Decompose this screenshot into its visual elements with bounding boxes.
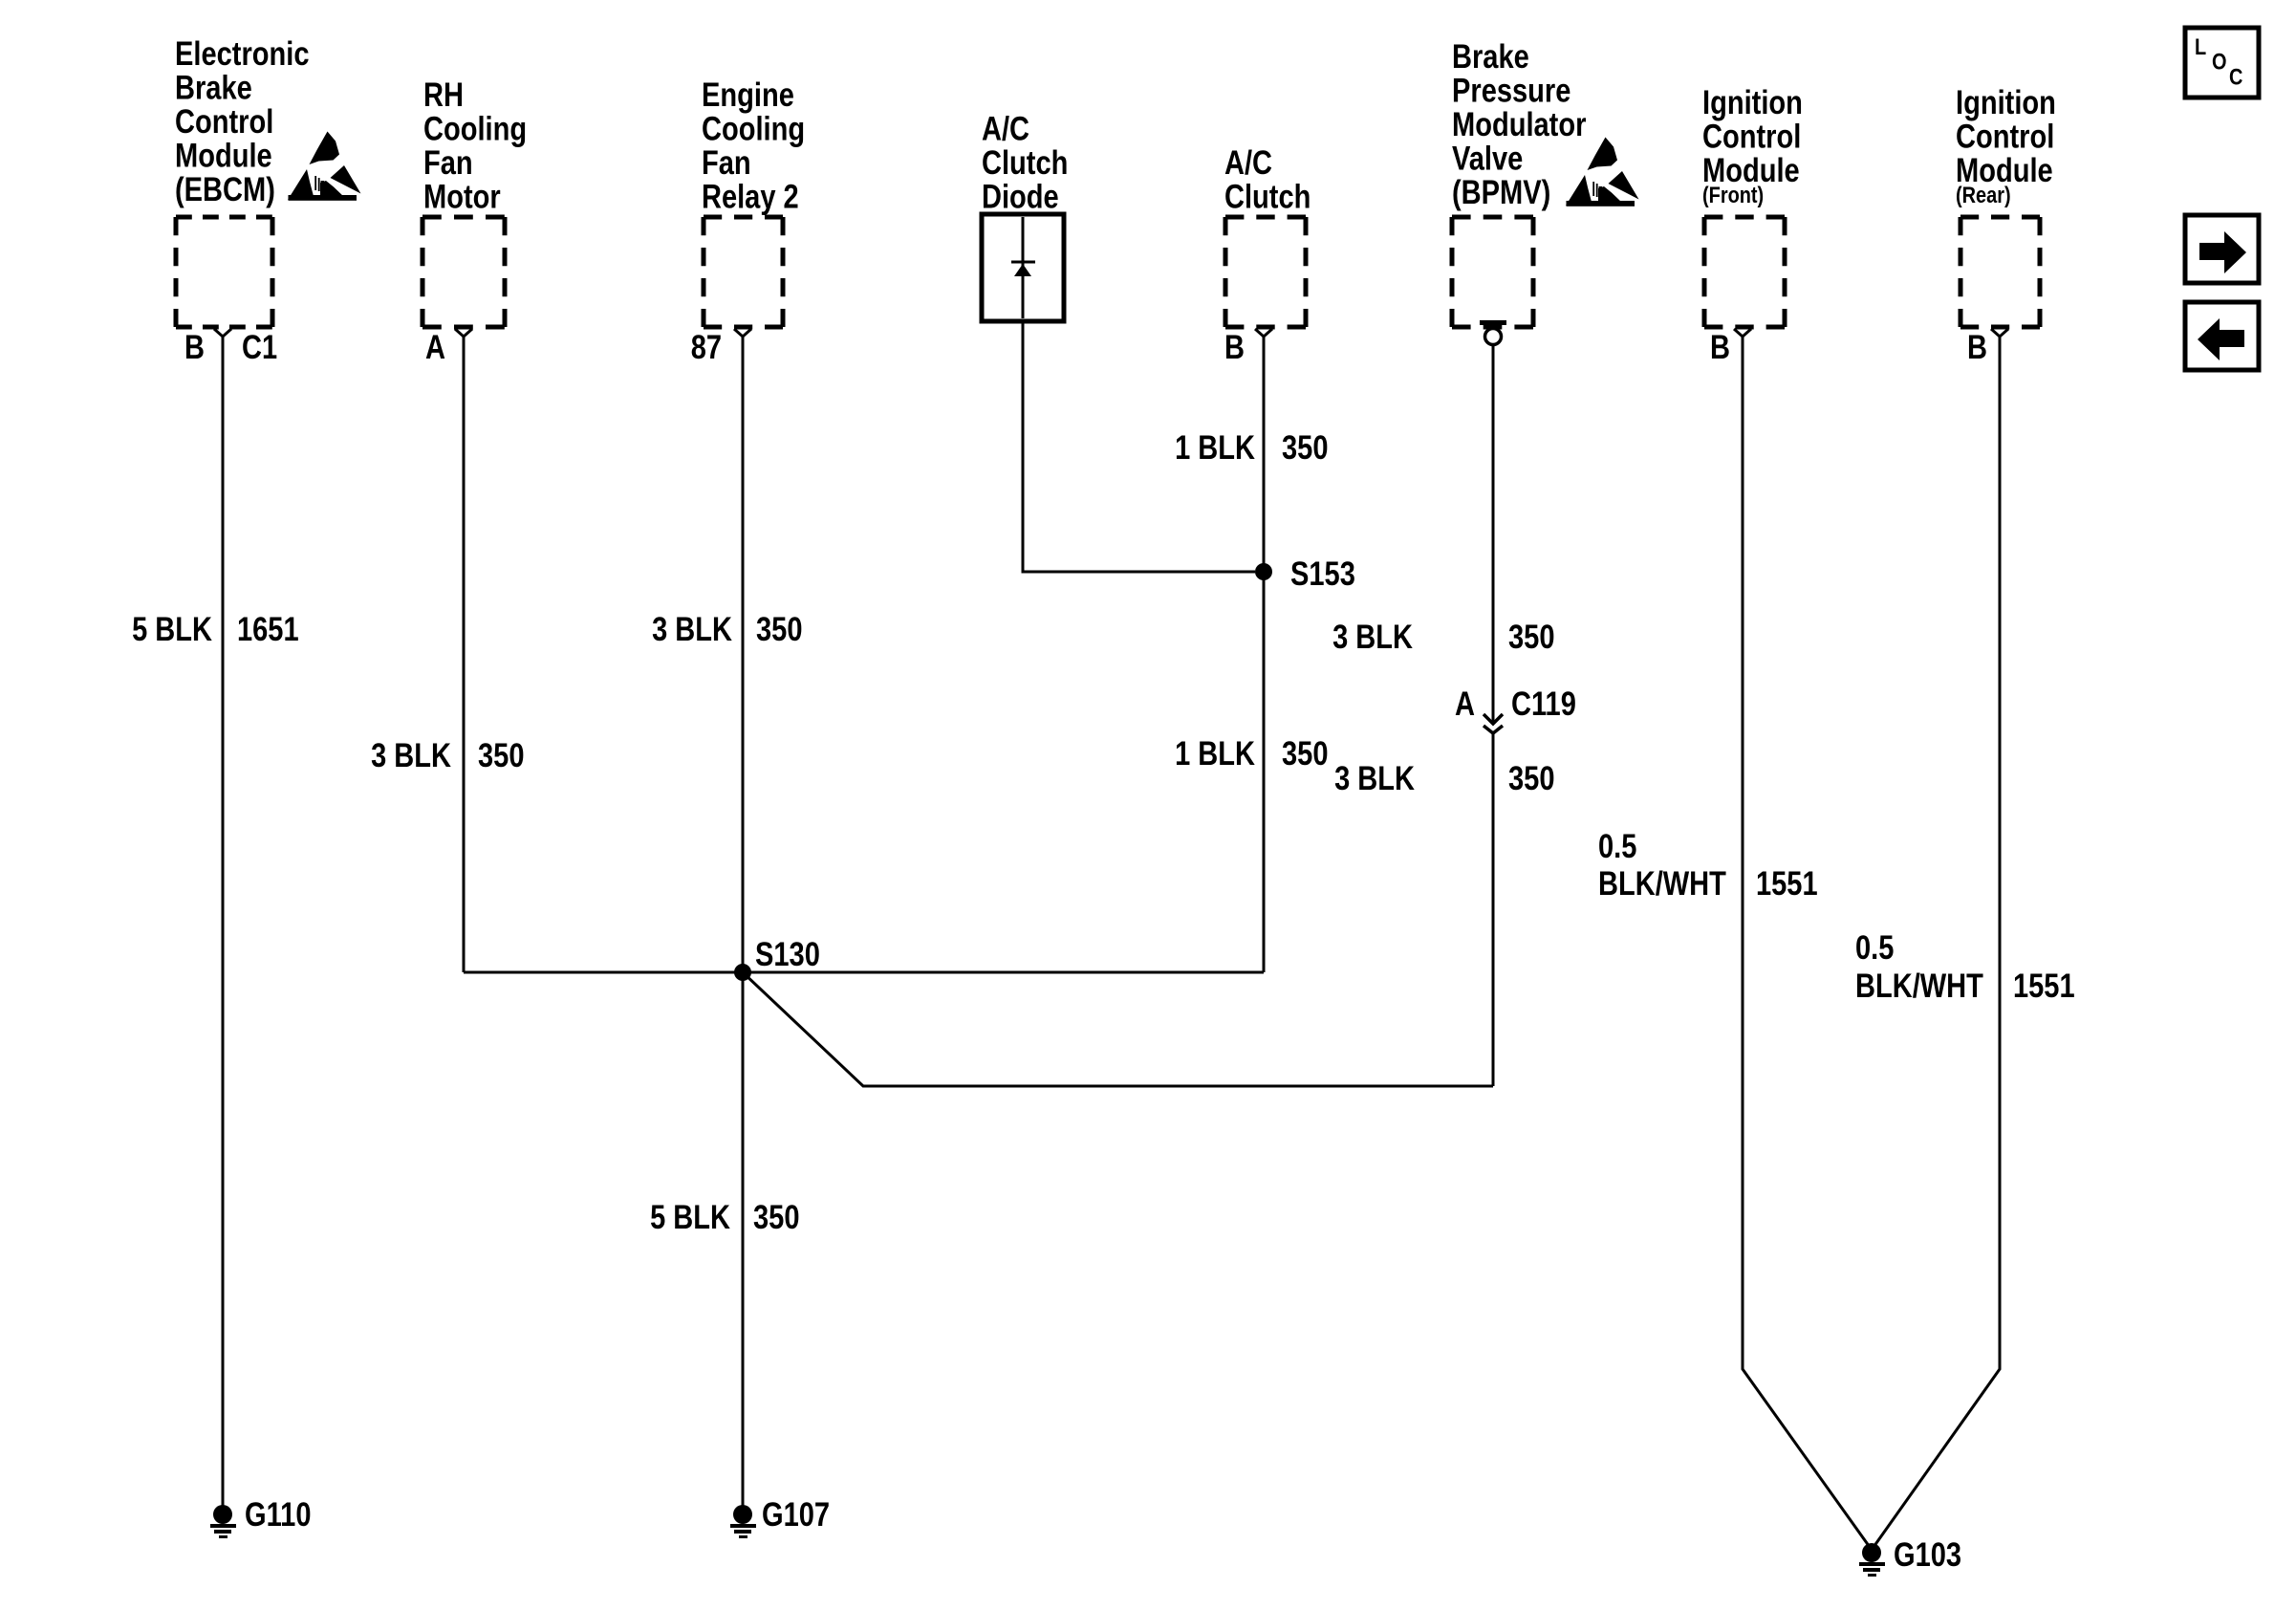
right arrow icon (2185, 215, 2259, 283)
svg-text:L: L (2195, 34, 2206, 60)
wire RH fan motor to S130, 3 BLK 350 (371, 337, 524, 972)
LOC legend icon (2185, 28, 2259, 98)
splice S130 with horizontal bus wire (464, 936, 1264, 981)
svg-text:Clutch: Clutch (982, 144, 1068, 182)
svg-text:Ignition: Ignition (1956, 84, 2056, 121)
svg-text:1651: 1651 (237, 611, 299, 648)
svg-text:1551: 1551 (1756, 865, 1818, 903)
svg-text:Motor: Motor (423, 179, 501, 216)
pin B of ICM front (1710, 329, 1751, 366)
left arrow icon (2185, 302, 2259, 370)
svg-text:C: C (2229, 65, 2242, 91)
svg-text:B: B (184, 329, 205, 366)
module Engine Cooling Fan Relay 2 (702, 76, 805, 327)
wire EBCM B to G110, 5 BLK 1651 (132, 337, 299, 1509)
svg-text:350: 350 (1282, 429, 1329, 467)
svg-text:(EBCM): (EBCM) (175, 171, 275, 208)
svg-text:3 BLK: 3 BLK (652, 611, 732, 648)
pin B of ICM rear (1967, 329, 2008, 366)
svg-text:350: 350 (756, 611, 803, 648)
svg-text:Clutch: Clutch (1224, 179, 1310, 216)
pin 87 of relay 2 (691, 329, 751, 366)
svg-text:5 BLK: 5 BLK (132, 611, 212, 648)
svg-text:BLK/WHT: BLK/WHT (1855, 968, 1983, 1005)
svg-text:G110: G110 (245, 1496, 312, 1534)
module Ignition Control Module (Front) (1702, 84, 1803, 327)
svg-text:Ignition: Ignition (1702, 84, 1803, 121)
svg-text:3 BLK: 3 BLK (1332, 619, 1413, 656)
module Ignition Control Module (Rear) (1956, 84, 2056, 327)
module A/C Clutch (1224, 144, 1310, 327)
svg-text:G107: G107 (762, 1496, 830, 1534)
svg-text:0.5: 0.5 (1855, 929, 1894, 967)
svg-text:1 BLK: 1 BLK (1175, 735, 1255, 772)
wire relay 87 through S130 to G107, 3 BLK 350 / 5 BLK 350 (650, 337, 802, 1509)
svg-text:O: O (2212, 50, 2227, 76)
svg-text:RH: RH (423, 76, 464, 114)
svg-text:Control: Control (1956, 119, 2054, 156)
svg-text:Valve: Valve (1452, 141, 1523, 178)
svg-text:C1: C1 (242, 329, 277, 366)
svg-text:BLK/WHT: BLK/WHT (1598, 865, 1726, 903)
svg-text:Fan: Fan (423, 144, 473, 182)
wire S130 diagonal to BPMV leg (743, 972, 1493, 1086)
svg-text:S130: S130 (755, 936, 820, 973)
svg-text:Engine: Engine (702, 76, 794, 114)
svg-text:350: 350 (1508, 760, 1555, 797)
svg-text:Module: Module (175, 138, 272, 175)
svg-text:Brake: Brake (1452, 38, 1529, 76)
svg-text:Brake: Brake (175, 70, 252, 107)
svg-text:350: 350 (1508, 619, 1555, 656)
svg-text:C119: C119 (1511, 685, 1576, 723)
BPMV bottom connector circle (1480, 320, 1506, 345)
svg-text:Control: Control (175, 103, 273, 141)
module BPMV: Brake Pressure Modulator Valve (1452, 38, 1587, 327)
svg-text:87: 87 (691, 329, 722, 366)
connector C119 pin A (1455, 685, 1576, 733)
wire BPMV to S130 bus, 3 BLK 350 (1332, 345, 1554, 1086)
splice S153 (1255, 555, 1355, 593)
svg-text:Cooling: Cooling (702, 111, 805, 148)
svg-text:350: 350 (1282, 735, 1329, 772)
svg-text:B: B (1224, 329, 1245, 366)
svg-text:A: A (425, 329, 445, 366)
svg-text:G103: G103 (1894, 1536, 1961, 1574)
svg-text:3 BLK: 3 BLK (371, 737, 451, 774)
svg-text:Relay 2: Relay 2 (702, 179, 799, 216)
svg-text:A/C: A/C (982, 111, 1029, 148)
A/C clutch diode (982, 111, 1068, 322)
ESD warning symbol (BPMV) (1566, 138, 1639, 207)
ground G107 (730, 1496, 830, 1538)
module RH Cooling Fan Motor (422, 76, 527, 327)
svg-text:350: 350 (478, 737, 525, 774)
svg-text:(Front): (Front) (1702, 183, 1764, 208)
svg-text:Cooling: Cooling (423, 111, 527, 148)
wire ICM rear to G103, 0.5 BLK/WHT 1551 (1855, 337, 2075, 1550)
wire diode to S153 (1023, 321, 1255, 572)
svg-text:1551: 1551 (2013, 968, 2075, 1005)
svg-text:Control: Control (1702, 119, 1801, 156)
svg-text:5 BLK: 5 BLK (650, 1199, 730, 1236)
svg-text:1 BLK: 1 BLK (1175, 429, 1255, 467)
svg-text:350: 350 (753, 1199, 800, 1236)
ground G110 (210, 1496, 312, 1538)
svg-text:B: B (1710, 329, 1730, 366)
svg-text:3 BLK: 3 BLK (1334, 760, 1415, 797)
svg-text:A/C: A/C (1224, 144, 1272, 182)
svg-text:0.5: 0.5 (1598, 828, 1636, 865)
svg-text:B: B (1967, 329, 1987, 366)
svg-text:Fan: Fan (702, 144, 751, 182)
pin B C1 of EBCM (184, 329, 277, 366)
svg-text:S153: S153 (1290, 555, 1355, 593)
pin A of RH fan motor (425, 329, 472, 366)
ground G103 (1859, 1536, 1961, 1577)
ESD warning symbol (EBCM) (288, 132, 361, 201)
svg-text:(Rear): (Rear) (1956, 183, 2011, 208)
svg-text:A: A (1455, 685, 1475, 723)
wire A/C clutch B to S130, 1 BLK 350 (1175, 337, 1328, 972)
svg-text:Electronic: Electronic (175, 35, 310, 73)
svg-text:Pressure: Pressure (1452, 73, 1570, 110)
svg-text:Diode: Diode (982, 179, 1059, 216)
pin B of A/C clutch (1224, 329, 1272, 366)
module EBCM: Electronic Brake Control Module (175, 35, 310, 327)
svg-text:Modulator: Modulator (1452, 106, 1587, 143)
wire ICM front to G103, 0.5 BLK/WHT 1551 (1598, 337, 1872, 1550)
svg-text:(BPMV): (BPMV) (1452, 174, 1550, 211)
